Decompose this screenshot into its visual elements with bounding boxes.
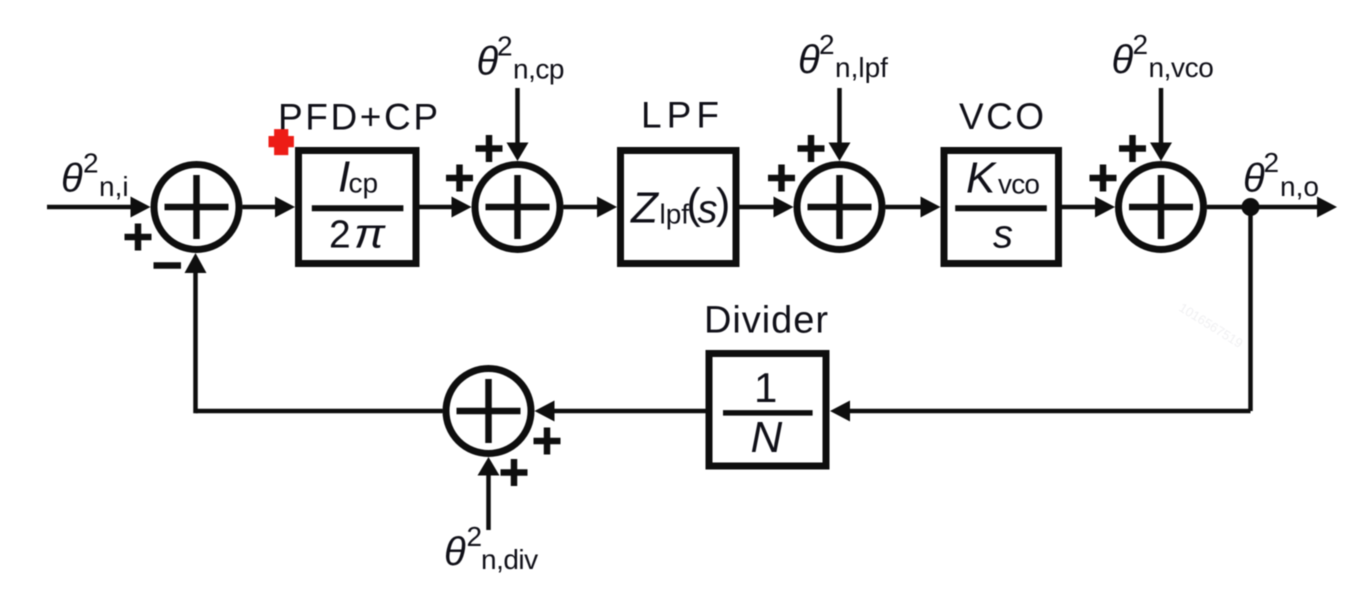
svg-text:θ: θ (444, 530, 466, 574)
S3 plus upper (798, 135, 825, 162)
arrowhead into S2 (452, 197, 472, 218)
summing junction S1 (154, 165, 239, 250)
red cross marker (269, 129, 294, 155)
svg-text:Z: Z (630, 184, 660, 233)
svg-text:n,cp: n,cp (513, 54, 564, 85)
svg-text:n,lpf: n,lpf (835, 52, 888, 83)
svg-text:θ: θ (798, 38, 820, 82)
S5 plus below (501, 459, 528, 486)
arrowhead into S4 (1095, 197, 1115, 218)
arrowhead into VCO (921, 197, 941, 218)
output arrowhead (1317, 197, 1337, 218)
wire S5 to feedback left (196, 409, 443, 414)
svg-text:Divider: Divider (704, 300, 828, 342)
S4 plus left (1090, 165, 1117, 192)
arrowhead into S3 (774, 197, 794, 218)
wire divider to S5 (552, 409, 706, 414)
S2 plus left (446, 165, 473, 192)
vertical arrow into S4 (1159, 88, 1164, 144)
arrowhead into summing S1 (131, 197, 151, 218)
summing junction S4 (1119, 165, 1204, 250)
svg-text:2: 2 (1133, 29, 1149, 60)
S1 minus sign (feedback input) (154, 262, 182, 269)
arrowhead into divider (830, 401, 850, 422)
svg-text:): ) (716, 180, 730, 228)
svg-text:θ: θ (477, 40, 499, 84)
svg-text:N: N (751, 413, 783, 462)
svg-text:2: 2 (1264, 147, 1280, 178)
S2 plus upper (476, 135, 503, 162)
wire feedback vertical left (193, 271, 198, 413)
wire S1 to PFD block (243, 205, 279, 210)
arrowhead into LPF (597, 197, 617, 218)
svg-text:n,div: n,div (481, 544, 538, 575)
svg-text:cp: cp (349, 168, 379, 199)
svg-text:vco: vco (998, 169, 1039, 200)
wire S2 to LPF (564, 205, 601, 210)
block PFD+CP (Icp/2pi) (299, 151, 417, 264)
block VCO (Kvco/s) (944, 151, 1059, 264)
vertical arrow into S3 (837, 88, 842, 144)
arrowhead into S5 (535, 401, 555, 422)
S1 plus sign (left input) (125, 224, 152, 251)
label theta2 n,o (1243, 147, 1319, 202)
summing junction S3 (797, 165, 882, 250)
svg-text:lpf: lpf (660, 199, 690, 230)
svg-text:VCO: VCO (959, 96, 1044, 137)
svg-text:2: 2 (497, 31, 513, 62)
svg-text:s: s (698, 188, 718, 232)
arrowhead into S1 from below (185, 253, 207, 273)
svg-text:2: 2 (467, 521, 483, 552)
svg-text:θ: θ (61, 157, 83, 201)
svg-text:1: 1 (754, 364, 777, 411)
svg-text:2: 2 (819, 29, 835, 60)
vertical arrow into S2 (515, 88, 520, 144)
block Divider (1/N) (709, 354, 826, 467)
svg-text:n,vco: n,vco (1149, 52, 1214, 83)
label theta2 n,cp (477, 31, 564, 85)
wire S4 to output (1207, 205, 1320, 210)
block LPF (Zlpf(s)) (621, 151, 737, 264)
svg-text:θ: θ (1243, 157, 1265, 201)
label theta2 n,lpf (798, 29, 888, 83)
vertical arrow into S5 from below (486, 475, 491, 530)
svg-text:K: K (966, 154, 997, 203)
label theta2 n,vco (1112, 29, 1214, 83)
summing junction S2 (475, 165, 560, 250)
wire feedback vertical right (1248, 207, 1253, 411)
svg-text:n,o: n,o (1280, 171, 1319, 202)
wire VCO to S4 (1062, 205, 1098, 210)
S3 plus left (768, 165, 795, 192)
S5 plus right (534, 428, 561, 455)
svg-text:2: 2 (329, 214, 351, 257)
svg-text:n,i: n,i (99, 171, 129, 202)
S4 plus upper (1119, 135, 1146, 162)
node label theta2 n,i (61, 148, 129, 203)
svg-text:θ: θ (1112, 38, 1134, 82)
svg-text:LPF: LPF (641, 95, 719, 136)
svg-text:2: 2 (83, 148, 99, 179)
wire feedback horizontal to divider (847, 409, 1251, 414)
wire PFD to S2 (420, 205, 455, 210)
node dot output (1242, 198, 1260, 216)
wire S3 to VCO (886, 205, 924, 210)
wire LPF to S3 (740, 205, 777, 210)
label theta2 n,div (444, 521, 538, 575)
svg-text:π: π (354, 210, 386, 257)
svg-text:s: s (993, 213, 1013, 257)
arrowhead into PFD block (275, 197, 295, 218)
wire input horizontal (47, 205, 134, 210)
summing junction S5 (446, 369, 531, 454)
